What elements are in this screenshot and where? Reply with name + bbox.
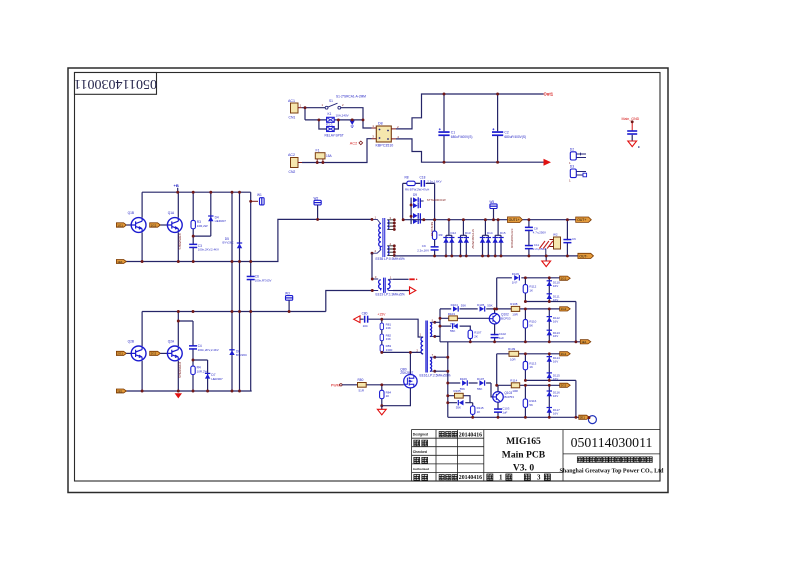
connector CN2 (AC neutral) [288, 153, 302, 174]
svg-text:S1-2*SRCA1-A-2MM: S1-2*SRCA1-A-2MM [336, 95, 366, 99]
svg-text:55K: 55K [461, 304, 466, 308]
svg-text:Q1B: Q1B [128, 211, 134, 215]
cap C7 [563, 220, 576, 256]
red arrow down (negative bus) [175, 393, 182, 398]
svg-text:050114030011: 050114030011 [571, 435, 653, 450]
port E2A [560, 383, 571, 387]
svg-text:C18: C18 [420, 176, 426, 180]
svg-text:D107: D107 [477, 377, 485, 381]
svg-text:2G1: 2G1 [561, 352, 567, 356]
inner sheet border frame [75, 73, 661, 482]
node dots lower section [177, 310, 180, 313]
svg-text:D13: D13 [465, 231, 471, 235]
power port +B [174, 183, 179, 192]
bridge rectifier D8 [372, 122, 400, 148]
svg-text:D104: D104 [451, 303, 459, 307]
IGBT Q1A [167, 218, 182, 233]
svg-text:C2: C2 [504, 130, 508, 134]
wire: output + rail [403, 219, 576, 221]
svg-text:AC2: AC2 [288, 153, 295, 157]
wire: bridge + output with jogs, top DC rail [396, 94, 544, 129]
svg-text:16V: 16V [553, 394, 558, 398]
svg-text:R105: R105 [454, 389, 462, 393]
svg-text:MIG165: MIG165 [506, 436, 541, 447]
wire: three long mid verticals [232, 192, 251, 391]
TITLE BLOCK [412, 430, 660, 481]
ground (PWM) [377, 406, 386, 415]
svg-text:OUT+: OUT+ [577, 218, 586, 222]
resistor R103 [448, 312, 458, 326]
svg-text:16V: 16V [553, 360, 558, 364]
resistor R110 [523, 309, 536, 342]
driver transformer T3 [416, 318, 450, 377]
svg-text:R80: R80 [358, 378, 364, 382]
svg-text:1E1: 1E1 [117, 260, 123, 264]
IGBT Q1B [131, 218, 146, 233]
svg-text:D105: D105 [477, 303, 485, 307]
svg-text:Shanghai Greatway Top Power CO: Shanghai Greatway Top Power CO., Ltd [560, 468, 665, 474]
svg-text:1E1: 1E1 [581, 340, 587, 344]
wire: T1 bottom-left down to T2 [371, 253, 373, 279]
svg-text:W5: W5 [489, 200, 494, 204]
svg-text:1G2: 1G2 [561, 307, 567, 311]
resistor R108 [510, 302, 519, 316]
svg-text:R109: R109 [508, 347, 516, 351]
connector CN5 (right top small) [569, 147, 586, 165]
svg-text:R6 BTW,2W,47uH: R6 BTW,2W,47uH [405, 187, 429, 191]
svg-text:CN1: CN1 [289, 116, 296, 120]
zener pair D112/D113 [547, 309, 561, 342]
wire: driver bottom rail [448, 416, 579, 418]
svg-text:R114: R114 [510, 379, 517, 383]
svg-text:1uF: 1uF [502, 410, 507, 414]
svg-text:16V: 16V [553, 412, 558, 416]
diode D104 [451, 303, 467, 312]
svg-text:PWM: PWM [331, 383, 340, 387]
svg-text:V3. 0: V3. 0 [513, 463, 535, 474]
port E2 (lower emitter rail) [116, 389, 126, 393]
jumper W5 [489, 200, 497, 220]
svg-text:Main PCB: Main PCB [502, 450, 546, 461]
node: AC1 junction [304, 106, 307, 109]
jumper W3 [285, 292, 293, 312]
resistor R109 (inline) [508, 347, 519, 361]
connector CN6 (right top small, lower) [569, 165, 587, 183]
svg-text:1G1: 1G1 [561, 277, 567, 281]
resistor R116 [523, 385, 536, 417]
wire: gate Q2A [160, 352, 167, 354]
snubber R9 [430, 222, 443, 240]
svg-text:Checked: Checked [413, 450, 427, 454]
rectifier dual diode D14 [480, 220, 493, 256]
shunt RS1 [539, 233, 560, 256]
svg-text:D2: D2 [570, 147, 574, 151]
svg-text:W3: W3 [285, 292, 290, 296]
svg-text:1N?: 1N? [512, 281, 518, 285]
wire: gate Q1A [160, 224, 167, 226]
svg-text:1K: 1K [477, 410, 481, 414]
resistor R112 [523, 278, 536, 302]
svg-text:D109: D109 [512, 272, 520, 276]
svg-text:C80: C80 [362, 311, 368, 315]
capacitor C80 [362, 311, 369, 328]
svg-text:K30N60HS: K30N60HS [178, 362, 182, 378]
svg-text:S1: S1 [329, 99, 333, 103]
svg-text:Q2B: Q2B [128, 340, 134, 344]
svg-text:MP930-1R: MP930-1R [430, 222, 434, 237]
svg-text:2G2: 2G2 [151, 352, 157, 356]
port G1A [560, 276, 571, 280]
svg-text:K1-1: K1-1 [326, 122, 333, 126]
node dots on DC bus [443, 93, 446, 96]
wire: diode row [440, 309, 560, 314]
wire: lower bottom rail [126, 390, 252, 392]
svg-text:K1: K1 [328, 112, 332, 116]
wire: Q1B collector/emitter verticals [141, 192, 143, 261]
svg-text:Authorized: Authorized [413, 467, 429, 471]
svg-text:55K: 55K [456, 406, 461, 410]
diode D106 [460, 377, 468, 391]
zener pair D116/D117 [547, 385, 561, 417]
node dots upper section [176, 191, 179, 194]
capacitor C2 [492, 94, 526, 162]
svg-text:F1: F1 [316, 148, 320, 152]
wire: upper top rail [142, 191, 251, 193]
svg-text:1K: 1K [529, 365, 533, 369]
svg-text:HER307: HER307 [215, 219, 227, 223]
svg-text:OUT-: OUT- [579, 254, 587, 258]
snubber chain R81 R82 R83 [381, 319, 383, 352]
connector CN1 (AC line) [288, 99, 302, 120]
svg-text:20140416: 20140416 [459, 475, 482, 481]
svg-text:2.2n,1KV: 2.2n,1KV [417, 248, 429, 252]
wire: upper bottom rail to transformer [126, 219, 372, 261]
wire: C4/R4 branch [178, 321, 207, 391]
svg-text:4.7n,250V: 4.7n,250V [533, 230, 546, 234]
svg-text:1K: 1K [529, 288, 533, 292]
svg-text:W2: W2 [314, 196, 319, 200]
zener pair D114/D115 [547, 354, 561, 381]
wire: T2 secondary out with red dash [393, 278, 409, 280]
svg-text:D9: D9 [413, 193, 417, 197]
wire: Q102 emitter + C102 [494, 324, 496, 342]
port G2 (Q2B gate) [116, 351, 126, 355]
svg-text:RELAY-SPST: RELAY-SPST [325, 134, 344, 138]
svg-text:Designed: Designed [413, 433, 428, 437]
svg-text:10R,2W: 10R,2W [197, 224, 208, 228]
svg-text:STPS6045CW: STPS6045CW [510, 229, 514, 249]
port PWM input [331, 383, 342, 387]
svg-text:R108: R108 [510, 302, 518, 306]
svg-text:R9: R9 [439, 233, 443, 237]
capacitor C3 [189, 244, 219, 252]
svg-text:HER307: HER307 [211, 377, 223, 381]
wire: Q103 emitter + C103 [497, 402, 499, 417]
wire: drain node [382, 352, 421, 374]
svg-text:20140416: 20140416 [459, 432, 482, 438]
svg-text:5K: 5K [529, 323, 533, 327]
svg-text:BCP53: BCP53 [501, 317, 511, 321]
svg-text:15A: 15A [326, 154, 333, 158]
wire: PWM to gate [342, 384, 404, 386]
svg-text:Out1: Out1 [544, 92, 554, 97]
svg-text:+B: +B [174, 183, 179, 188]
port OUT1+ [508, 217, 523, 223]
resistor R3 [191, 220, 208, 229]
wire: Q2A verticals [177, 312, 179, 392]
svg-text:16V: 16V [553, 320, 558, 324]
filter cap C8 [525, 220, 546, 256]
zener pair D110/D111 [547, 278, 561, 302]
svg-text:16V: 16V [553, 284, 558, 288]
port G2A [560, 352, 571, 356]
svg-text:100n,RT,63V: 100n,RT,63V [255, 278, 272, 282]
port E2B with ring [579, 415, 597, 423]
svg-text:10R: 10R [510, 358, 516, 362]
svg-text:W2: W2 [553, 233, 558, 237]
transistor Q103 [493, 392, 504, 403]
svg-text:2G1: 2G1 [117, 352, 123, 356]
port OUT+ [576, 217, 592, 222]
Main_GND net with cap and ground [622, 117, 640, 148]
red arrow right (open) [410, 287, 416, 294]
svg-text:C1: C1 [451, 130, 455, 134]
svg-text:10R: 10R [512, 389, 518, 393]
svg-text:2SK2837: 2SK2837 [400, 371, 413, 375]
svg-text:3: 3 [537, 474, 541, 482]
wire: output - rail [395, 255, 578, 257]
rectifier dual diode D15 [493, 220, 506, 256]
wire: link to bottom rail [525, 380, 576, 417]
wire: top gate net G1A [497, 278, 560, 309]
wire: T3 upper secondary to driver [435, 309, 440, 342]
resistor R80 [358, 378, 367, 392]
diode D6 [229, 349, 247, 357]
wire: lower mid rail up to transformer T2 return [142, 291, 372, 312]
resistor R114 (inline) [510, 379, 519, 393]
wire: E2 row [497, 384, 560, 386]
svg-text:D8: D8 [378, 122, 383, 126]
svg-text:C6: C6 [572, 237, 576, 241]
wire: R3/C3 branch [193, 192, 211, 261]
wire: bridge - output, bottom DC rail [396, 139, 544, 162]
wire: +15V rail to T3 pin1 [360, 319, 421, 337]
port G2 (Q2A gate) [150, 351, 161, 355]
switch S1 [322, 95, 367, 110]
transformer T1 [371, 215, 405, 260]
svg-text:2G2: 2G2 [561, 384, 567, 388]
svg-text:K30N60HS: K30N60HS [178, 234, 182, 250]
svg-text:2K: 2K [474, 334, 478, 338]
MOSFET Q80 [404, 375, 417, 388]
svg-text:EE19 LP:1.9MH±5%: EE19 LP:1.9MH±5% [376, 293, 405, 297]
svg-text:AC1: AC1 [288, 99, 295, 103]
svg-text:1: 1 [499, 474, 503, 482]
svg-text:D106: D106 [460, 377, 468, 381]
wire: gate net G2A row [497, 354, 560, 386]
wire: lower link to E rail [525, 302, 576, 342]
resistor R105 [448, 389, 470, 403]
IGBT Q2B [131, 346, 146, 361]
svg-text:1uF: 1uF [499, 336, 504, 340]
earth triangle [350, 118, 355, 127]
relay contact K1 [327, 112, 349, 122]
wire: AC1 to switch and bridge pin1 [302, 108, 372, 128]
svg-text:R103: R103 [448, 312, 456, 316]
svg-text:10A,240V: 10A,240V [336, 113, 349, 117]
port G1 (Q1A gate) [150, 223, 161, 228]
wire: diode row lower [448, 383, 493, 397]
fuse F1 [315, 148, 332, 164]
svg-text:1G2: 1G2 [151, 223, 157, 227]
wire: base row through R103 [440, 317, 489, 319]
svg-text:55K: 55K [450, 329, 455, 333]
rectifier dual diode D13 [458, 220, 471, 256]
jumper W2 [314, 196, 322, 219]
wire: T3 lower secondary to driver [435, 342, 448, 418]
svg-text:2E1: 2E1 [580, 416, 586, 420]
svg-text:104: 104 [363, 324, 368, 328]
diode D109 (inline) [512, 272, 520, 285]
rectifier dual diode D12 [443, 220, 456, 256]
svg-text:1G1: 1G1 [117, 223, 123, 227]
svg-text:+15V: +15V [377, 312, 386, 316]
port G1 (Q1B gate) [116, 223, 126, 228]
svg-text:5K: 5K [529, 403, 533, 407]
wire: lower row with D102 [440, 326, 470, 342]
diode D105 [477, 303, 493, 312]
page row [487, 474, 493, 480]
capacitor C4 [189, 344, 219, 352]
snubber R6 + C10 [403, 179, 442, 256]
IGBT Q2A [167, 346, 182, 361]
svg-text:680uF/400V(S): 680uF/400V(S) [451, 135, 473, 139]
svg-text:BCP53: BCP53 [504, 395, 514, 399]
svg-text:1K: 1K [386, 394, 390, 398]
resistor R4 [191, 366, 208, 375]
wire: E1 rail of driver [440, 341, 580, 343]
svg-text:51R: 51R [359, 389, 365, 393]
diode D102 [450, 323, 458, 332]
svg-text:680uF/400V(S): 680uF/400V(S) [504, 135, 526, 139]
svg-text:Main_GND: Main_GND [622, 117, 640, 121]
ground (output) [542, 256, 551, 267]
svg-text:10R: 10R [512, 313, 518, 317]
red arrow (bottom DC rail end) [544, 159, 552, 166]
svg-text:CN2: CN2 [289, 170, 296, 174]
svg-text:13K: 13K [386, 337, 391, 341]
wire: Q103 collector to gate row [497, 385, 499, 391]
svg-text:13K: 13K [386, 326, 391, 330]
svg-text:KBPC3510: KBPC3510 [376, 144, 394, 148]
svg-text:55K: 55K [477, 387, 482, 391]
transistor Q102 [489, 313, 500, 324]
diode D4 [208, 215, 226, 223]
capacitor C1 [438, 94, 472, 162]
svg-text:AC2: AC2 [350, 142, 357, 146]
svg-text:EE55 LP:0.9MH±5%: EE55 LP:0.9MH±5% [376, 257, 405, 261]
port OUT- [578, 253, 594, 258]
svg-text:D12: D12 [451, 231, 457, 235]
diode D7 [205, 373, 223, 381]
relay coil K1-1 [317, 118, 343, 137]
svg-text:050114030011: 050114030011 [74, 76, 157, 91]
node dots lower driver [446, 356, 449, 359]
wire: Q2B verticals [141, 312, 143, 392]
svg-text:100n,2KV,2.4KV: 100n,2KV,2.4KV [198, 248, 219, 252]
wire: gate Q1B [126, 224, 131, 226]
svg-text:BYV26C: BYV26C [236, 353, 247, 357]
wire: T2 secondary out to red arrow [393, 290, 409, 292]
port E1A [580, 340, 591, 344]
snubber C9 [417, 244, 438, 252]
svg-text:STTH6003CW: STTH6003CW [427, 198, 446, 202]
svg-text:D3: D3 [570, 165, 574, 169]
drawing number box (top-left, rotated) [75, 73, 157, 95]
wire: AC2 to bridge pin3 [302, 139, 372, 163]
svg-text:2E1: 2E1 [117, 389, 123, 393]
outer sheet border frame [68, 68, 668, 493]
svg-text:BYV26C: BYV26C [223, 241, 234, 245]
resistor R107 [468, 330, 482, 338]
jumper W1 [251, 193, 264, 205]
svg-text:2.2n,1.6KV: 2.2n,1.6KV [427, 179, 441, 183]
svg-text:Q2A: Q2A [168, 340, 175, 344]
wire: Q1A collector/emitter verticals [177, 192, 179, 261]
diode D5 [223, 237, 243, 248]
resistor R113 [523, 354, 536, 381]
diode D103 + resistor R115 [448, 400, 484, 417]
svg-text:Q1A: Q1A [168, 211, 175, 215]
wire: source return [382, 388, 411, 406]
svg-text:EE16,LP:2.5MH±50%: EE16,LP:2.5MH±50% [420, 374, 451, 378]
svg-text:D15: D15 [500, 231, 506, 235]
node dots output rails [402, 218, 405, 221]
port E1 (upper emitter rail) [116, 260, 126, 264]
svg-text:16V: 16V [553, 334, 558, 338]
svg-text:D14: D14 [487, 231, 493, 235]
svg-text:55K: 55K [487, 304, 492, 308]
resistor R84 (gate pulldown) [381, 385, 383, 406]
wire: gate Q2B [126, 352, 131, 354]
svg-text:W1: W1 [257, 193, 262, 197]
svg-text:OUT1+: OUT1+ [509, 218, 520, 222]
port G1B [560, 307, 571, 311]
capacitor C6 [247, 275, 272, 283]
svg-text:1300: 1300 [386, 348, 393, 352]
freewheel dual diode D9 [410, 193, 446, 224]
svg-text:STPS6045CW: STPS6045CW [471, 229, 475, 249]
red arrow left (open, +15V feed) [354, 316, 360, 323]
diode D107 [477, 377, 485, 391]
node dots upper driver [439, 317, 442, 320]
svg-text:100n,2KV,2.4KV: 100n,2KV,2.4KV [198, 348, 219, 352]
svg-text:R8: R8 [405, 176, 409, 180]
